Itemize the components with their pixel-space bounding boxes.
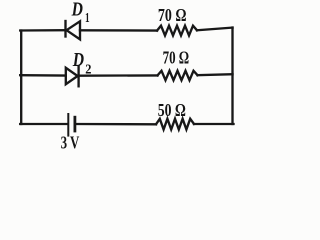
wire: right vertical bus — [231, 28, 233, 124]
wire: left vertical bus — [20, 31, 22, 125]
svg-text:3 V: 3 V — [61, 132, 80, 152]
wire: top branch, R1 to right corner — [197, 28, 233, 31]
label 3 V (battery value) — [61, 132, 80, 152]
diode D2 (points right, cathode bar at right) — [66, 66, 79, 86]
svg-text:70 Ω: 70 Ω — [163, 48, 190, 68]
diode D1 (cathode bar, points left) — [66, 21, 81, 39]
svg-text:50 Ω: 50 Ω — [158, 100, 186, 120]
svg-text:D: D — [71, 0, 83, 21]
label 50 ohm (R3) — [158, 100, 186, 120]
resistor R1 70 ohm (top) — [157, 26, 197, 36]
wire: top branch, D1 to R1 — [80, 29, 157, 32]
label D1 — [71, 0, 90, 26]
wire: bottom branch, R3 to right corner — [194, 123, 234, 125]
label 70 ohm (R1) — [158, 5, 187, 25]
wire: top branch, left corner to D1 anode — [20, 29, 65, 32]
label 70 ohm (R2) — [163, 48, 190, 68]
battery 3 V (short negative plate) — [74, 117, 77, 131]
wire: middle branch, D2 to R2 — [79, 74, 158, 77]
wire: bottom branch, left corner to battery positive plate — [20, 123, 67, 125]
svg-text:70 Ω: 70 Ω — [158, 5, 187, 25]
resistor R2 70 ohm (middle) — [158, 71, 198, 80]
label D2 — [72, 49, 91, 78]
wire: middle branch, left bus to D2 anode — [20, 74, 66, 77]
svg-text:2: 2 — [85, 63, 91, 78]
svg-text:D: D — [72, 49, 84, 71]
wire: middle branch, R2 to right bus — [198, 74, 233, 75]
resistor R3 50 ohm (bottom) — [156, 119, 194, 130]
svg-text:1: 1 — [85, 11, 90, 26]
wire: bottom branch, battery to R3 — [76, 123, 156, 126]
battery 3 V (long positive plate) — [67, 114, 69, 136]
